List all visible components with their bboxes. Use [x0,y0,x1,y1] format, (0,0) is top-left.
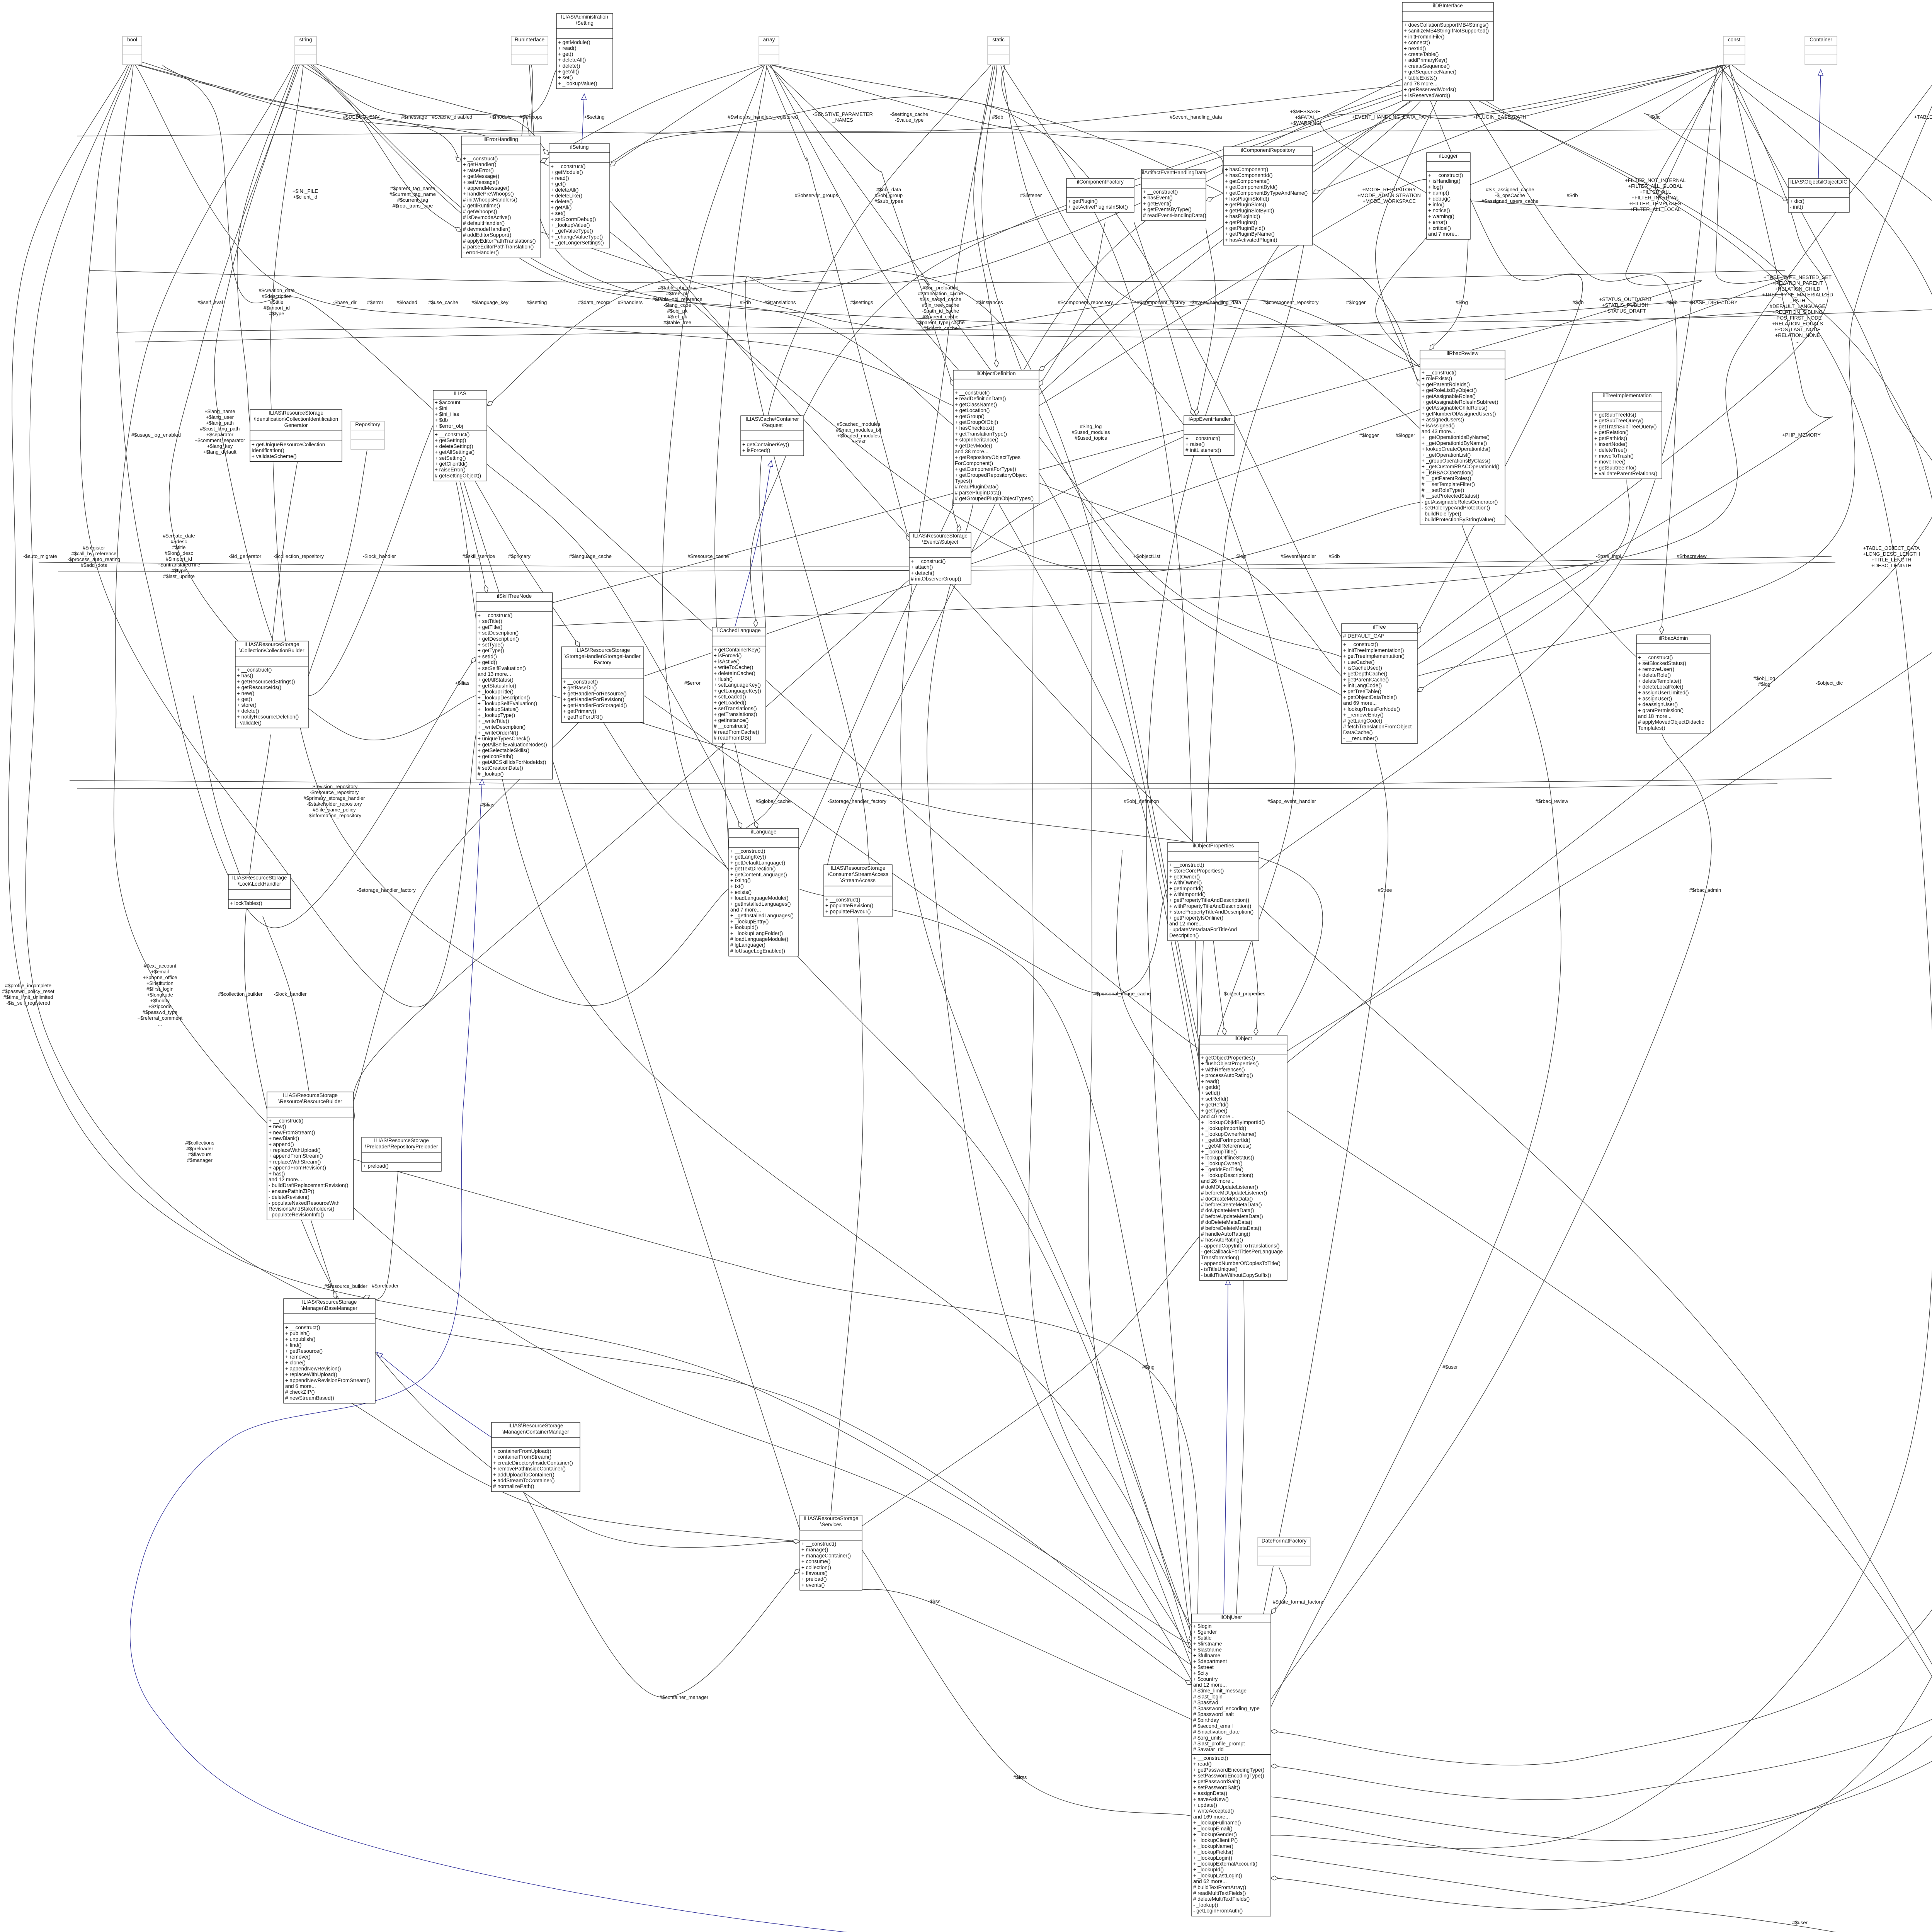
svg-text:Transformation(): Transformation() [1201,1255,1239,1260]
ilComponentFactory [1066,179,1134,212]
svg-text:+ getHandlerForRevision(): + getHandlerForRevision() [563,697,624,702]
edge containermanager to Services [522,1489,800,1697]
svg-text:+ getResourceIds(): + getResourceIds() [237,685,281,690]
svg-text:#$parent_cache: #$parent_cache [922,314,958,320]
svg-text:+ getPropertyTitleAndDescripti: + getPropertyTitleAndDescription() [1169,897,1249,903]
svg-text:# $birthday: # $birthday [1193,1717,1219,1723]
svg-text:+ processAutoRating(): + processAutoRating() [1201,1073,1253,1078]
svg-text:ILIAS\Cache\Container: ILIAS\Cache\Container [745,416,799,422]
svg-text:+ getInstalledLanguages(): + getInstalledLanguages() [730,901,791,907]
svg-text:#$assigned_users_cache: #$assigned_users_cache [1481,198,1538,204]
svg-text:+ getPasswordSalt(): + getPasswordSalt() [1193,1779,1240,1784]
svg-text:#$import_id: #$import_id [166,556,192,562]
svg-text:# hasAutoRating(): # hasAutoRating() [1201,1237,1243,1243]
svg-text:#$lng: #$lng [1142,1364,1155,1370]
svg-text:#$global_cache: #$global_cache [755,798,791,804]
svg-text:# parsePluginData(): # parsePluginData() [955,490,1001,495]
svg-text:+ getLanguageKey(): + getLanguageKey() [714,688,761,694]
svg-text:#$in_tree_cache: #$in_tree_cache [922,302,959,308]
svg-text:+ remove(): + remove() [285,1354,311,1360]
edge ilObjectDIC extends Container [1818,70,1821,179]
Container [1805,36,1837,65]
edge cross2 [610,232,1420,573]
svg-text:+$loaded_modules: +$loaded_modules [837,433,880,439]
svg-text:+ setPasswordSalt(): + setPasswordSalt() [1193,1784,1240,1790]
svg-text:+ dic(): + dic() [1790,198,1804,204]
svg-text:string: string [299,37,312,43]
svg-text:ilComponentRepository: ilComponentRepository [1241,147,1295,153]
svg-text:and 26 more...: and 26 more... [1201,1178,1235,1184]
svg-text:+ getEventsByType(): + getEventsByType() [1143,207,1192,213]
svg-text:+$hobby: +$hobby [150,998,170,1003]
svg-text:#$ref_pk: #$ref_pk [668,314,687,320]
svg-text:and 40 more...: and 40 more... [1201,1114,1235,1119]
edge cross12 [1196,228,1216,416]
svg-text:+ roleExists(): + roleExists() [1422,376,1452,381]
svg-text:ilObjectDefinition: ilObjectDefinition [976,371,1015,376]
svg-text:+ withReferences(): + withReferences() [1201,1066,1245,1072]
svg-text:#$resource_builder: #$resource_builder [324,1283,367,1289]
svg-text:+$lang_name: +$lang_name [204,408,235,414]
svg-text:ilObjUser: ilObjUser [1221,1614,1242,1620]
svg-text:#$component_repository: #$component_repository [1263,299,1319,305]
svg-text:ilSkillTreeNode: ilSkillTreeNode [497,593,532,599]
edge string to ilObjUser left [114,65,1192,1685]
edge ilCron to ilObjUser user [1270,340,1932,1909]
svg-text:+ has(): + has() [237,673,253,679]
edge ILIAS diamond from top [162,65,433,410]
svg-text:# devmodeHandler(): # devmodeHandler() [463,226,510,232]
svg-text:+ detach(): + detach() [911,570,934,576]
svg-text:-$information_repository: -$information_repository [307,813,362,818]
svg-text:DateFormatFactory: DateFormatFactory [1262,1538,1307,1544]
edge const to ilObjUser PASSWD [1270,65,1932,1765]
svg-text:+ _lookupSelfEvaluation(): + _lookupSelfEvaluation() [478,701,537,706]
edge ilObject to ilObjUser gray [1236,1274,1244,1614]
BaseManager [284,1299,375,1403]
svg-text:- isTitleUnique(): - isTitleUnique() [1201,1266,1238,1272]
svg-text:#$preloader: #$preloader [186,1146,213,1151]
svg-text:+ __construct(): + __construct() [563,679,598,685]
svg-text:+ getLangKey(): + getLangKey() [730,854,766,860]
edge ilias long right [486,425,1932,1932]
svg-text:Identification(): Identification() [252,447,284,453]
svg-text:+ getGroupOfObj(): + getGroupOfObj() [955,419,998,425]
svg-text:and 43 more...: and 43 more... [1422,429,1455,434]
svg-text:+ unpublish(): + unpublish() [285,1336,315,1342]
svg-text:+ __construct(): + __construct() [730,848,765,854]
svg-text:Types(): Types() [955,478,972,484]
svg-text:_PATH: _PATH [1789,298,1805,303]
svg-text:+ getAllCSkillIdsForNodeIds(): + getAllCSkillIdsForNodeIds() [478,759,546,765]
svg-text:#$self_eval: #$self_eval [197,299,223,305]
svg-text:+ exists(): + exists() [730,889,752,895]
svg-text:# defaultHandler(): # defaultHandler() [463,220,505,226]
svg-text:+ dump(): + dump() [1428,190,1449,196]
svg-text:-$storage_handler_factory: -$storage_handler_factory [357,887,416,893]
svg-text:+ uniqueTypesCheck(): + uniqueTypesCheck() [478,736,530,742]
edge array to ilObjUser [663,65,1192,1634]
svg-text:+ appendFromRevision(): + appendFromRevision() [269,1165,326,1171]
svg-text:#$file_name_policy: #$file_name_policy [313,807,356,813]
svg-text:#$component_repository: #$component_repository [1058,299,1113,305]
svg-text:+ getAll(): + getAll() [558,69,579,75]
svg-text:+ getTreeImplementation(): + getTreeImplementation() [1343,653,1405,659]
svg-text:-$auto_migrate: -$auto_migrate [23,553,57,559]
svg-text:# doCreateMetaData(): # doCreateMetaData() [1201,1196,1253,1202]
svg-text:+ info(): + info() [1428,202,1444,207]
svg-text:+ getReservedWords(): + getReservedWords() [1404,87,1456,92]
svg-text:+ getRepositoryObjectTypes: + getRepositoryObjectTypes [955,454,1020,460]
svg-text:+$module: +$module [489,114,511,120]
svg-text:+ getPathIds(): + getPathIds() [1594,435,1627,441]
ilTreeImplementation [1593,392,1662,479]
svg-text:#$rbac_review: #$rbac_review [1536,798,1568,804]
svg-text:#$table_obj_reference: #$table_obj_reference [652,296,702,302]
svg-text:+ populateFlavour(): + populateFlavour() [825,908,871,914]
svg-text:#$creation_date: #$creation_date [259,287,294,293]
svg-text:+ new(): + new() [237,690,254,696]
svg-text:+TREE_TYPE_MATERIALIZED: +TREE_TYPE_MATERIALIZED [1762,292,1833,298]
svg-text:-$is_self_registered: -$is_self_registered [6,1000,50,1006]
svg-text:+PHP_MEMORY: +PHP_MEMORY [1782,432,1821,438]
edge cross4 [552,696,1323,1159]
svg-text:+ __construct(): + __construct() [1638,655,1673,660]
svg-text:#$instances: #$instances [976,299,1003,305]
svg-text:ilErrorHandling: ilErrorHandling [483,136,518,142]
svg-text:and 78 more...: and 78 more... [1404,81,1437,87]
edge array to ilErrorHandling [540,65,763,162]
svg-text:+ $db: + $db [435,417,448,423]
svg-text:+ getRefId(): + getRefId() [1201,1102,1229,1108]
edge db to ilTree db [1417,99,1583,634]
svg-text:+ createTable(): + createTable() [1404,51,1439,57]
svg-text:#$sub_types: #$sub_types [874,198,903,204]
svg-text:+ hasPluginId(): + hasPluginId() [1225,214,1260,219]
svg-text:#$flavours: #$flavours [188,1151,211,1157]
svg-text:+ getDescription(): + getDescription() [478,636,519,642]
svg-text:ILIAS\Object\ilObjectDIC: ILIAS\Object\ilObjectDIC [1790,179,1847,185]
svg-text:+ getModule(): + getModule() [558,39,590,45]
svg-text:+ hasComponent(): + hasComponent() [1225,167,1268,172]
svg-text:#$last_update: #$last_update [163,573,195,579]
svg-text:+ replaceWithStream(): + replaceWithStream() [269,1159,321,1165]
svg-text:#$logger: #$logger [1396,432,1415,438]
svg-text:- buildRoleType(): - buildRoleType() [1422,511,1461,517]
svg-text:+ $account: + $account [435,400,461,405]
svg-text:#$db: #$db [1567,192,1578,198]
svg-text:- init(): - init() [1790,204,1803,210]
edge db to ilObjUser right [1270,99,1932,1849]
svg-text:+RELATION_SIBLING: +RELATION_SIBLING [1772,309,1823,315]
svg-text:+ getPrimary(): + getPrimary() [563,708,596,714]
svg-text:+ _getAllReferences(): + _getAllReferences() [1201,1143,1252,1149]
ilAppEventHandler [1184,416,1234,456]
edge string to ilErrorHandling [301,65,461,232]
svg-text:\Manager\BaseManager: \Manager\BaseManager [301,1305,357,1311]
svg-text:# readEventHandlingData(): # readEventHandlingData() [1143,213,1206,218]
svg-text:+ manage(): + manage() [801,1547,828,1553]
svg-text:+ _getValueType(): + _getValueType() [551,228,593,234]
edge const to ilTree treetypes [1417,65,1828,649]
svg-text:# doDeleteMetaData(): # doDeleteMetaData() [1201,1219,1252,1225]
edge string to ilSetting2 [307,65,549,155]
svg-text:# addEditorSupport(): # addEditorSupport() [463,232,511,238]
edge ILIAS to ilObjUser [456,481,1192,1627]
svg-text:#$db: #$db [992,114,1003,120]
svg-text:-$lang_code: -$lang_code [663,302,691,308]
edge personal image cache [1116,850,1199,1121]
svg-text:- getLoginFromAuth(): - getLoginFromAuth() [1193,1908,1243,1914]
svg-text:#$db: #$db [1329,553,1340,559]
Repository [351,421,384,449]
edge db to ILIAS [487,77,1406,406]
svg-text:+ $gender: + $gender [1193,1629,1217,1635]
svg-text:+ setMessage(): + setMessage() [463,179,499,185]
svg-text:+ getActivePluginsInSlot(): + getActivePluginsInSlot() [1068,204,1128,210]
edge ILIAS to StorageFactory [475,481,580,647]
svg-text:+ $country: + $country [1193,1676,1218,1682]
svg-text:+ log(): + log() [1428,184,1443,190]
svg-text:+ __construct(): + __construct() [911,558,946,564]
svg-text:+ getSubTreeIds(): + getSubTreeIds() [1594,412,1636,418]
svg-text:# $passwd: # $passwd [1193,1700,1218,1706]
svg-text:#$db: #$db [1667,299,1678,305]
svg-text:ILIAS\ResourceStorage: ILIAS\ResourceStorage [269,410,323,416]
svg-text:+ getAllSelfEvaluationNodes(): + getAllSelfEvaluationNodes() [478,742,547,747]
svg-text:+ getContainerKey(): + getContainerKey() [714,647,760,653]
svg-text:+ get(): + get() [551,181,566,187]
svg-text:+ delete(): + delete() [558,63,580,69]
edge basemanager to Services [348,1401,800,1542]
svg-text:+ doesCollationSupportMB4Strin: + doesCollationSupportMB4Strings() [1404,22,1489,28]
ilDBInterface [1402,2,1493,101]
svg-text:#$obj_data: #$obj_data [876,187,901,192]
svg-text:+ txtlng(): + txtlng() [730,878,751,883]
svg-text:+ grantPermission(): + grantPermission() [1638,707,1684,713]
svg-text:+ notifyResourceDeletion(): + notifyResourceDeletion() [237,714,299,720]
svg-text:# getWhoops(): # getWhoops() [463,209,497,214]
svg-text:+ _writeOrderNr(): + _writeOrderNr() [478,730,518,736]
edge array to IRbacReview [772,65,1420,386]
svg-text:\StorageHandler\StorageHandler: \StorageHandler\StorageHandler [565,653,641,659]
svg-text:+ withPropertyTitleAndDescript: + withPropertyTitleAndDescription() [1169,903,1251,909]
svg-text:+ _lookupLangFolder(): + _lookupLangFolder() [730,930,783,936]
svg-text:- getCallbackForTitlesPerLangu: - getCallbackForTitlesPerLanguage [1201,1249,1283,1255]
svg-text:- populateNakedResourceWith: - populateNakedResourceWith [269,1200,340,1206]
svg-text:# readFromCache(): # readFromCache() [714,729,759,735]
svg-text:ILIAS\Administration: ILIAS\Administration [561,14,608,20]
svg-text:+ $city: + $city [1193,1670,1209,1676]
svg-text:-$collection_repository: -$collection_repository [274,553,324,559]
edge services to ilObjUser [862,1549,1192,1816]
svg-text:#$ilias: #$ilias [480,802,495,808]
svg-text:+ initFromIniFile(): + initFromIniFile() [1404,34,1444,39]
svg-text:+ getPasswordEncodingType(): + getPasswordEncodingType() [1193,1767,1264,1773]
svg-text:+ $ini_ilias: + $ini_ilias [435,411,459,417]
svg-text:#$DEBUG_ENV: #$DEBUG_ENV [343,114,380,120]
svg-text:+ assignedUsers(): + assignedUsers() [1422,417,1464,423]
edge array to ilComponentRepository [771,65,1223,174]
svg-text:ILIAS\ResourceStorage: ILIAS\ResourceStorage [302,1299,357,1305]
svg-text:+ getObjectProperties(): + getObjectProperties() [1201,1055,1255,1061]
edge array to ilTree cache [770,65,1342,657]
svg-text:+ $street: + $street [1193,1664,1214,1670]
svg-text:-$base_dir: -$base_dir [333,299,357,305]
svg-text:const: const [1728,37,1741,43]
svg-text:+ saveAsNew(): + saveAsNew() [1193,1796,1229,1802]
svg-text:+ getType(): + getType() [478,648,504,653]
svg-text:bool: bool [127,37,137,43]
svg-text:+ isAssigned(): + isAssigned() [1422,423,1455,429]
svg-text:+ preload(): + preload() [363,1163,389,1169]
svg-text:and 18 more...: and 18 more... [1638,713,1672,719]
edge bool to ilObjUser far left [9,65,1192,1646]
svg-text:+ isForced(): + isForced() [714,653,742,658]
svg-text:+ setTranslations(): + setTranslations() [714,706,757,711]
svg-text:# normalizePath(): # normalizePath() [493,1483,534,1489]
svg-text:+ __construct(): + __construct() [1185,435,1220,441]
svg-text:+ getAllSettings(): + getAllSettings() [435,449,474,455]
svg-text:+ critical(): + critical() [1428,225,1451,231]
svg-text:# loUsageLogEnabled(): # loUsageLogEnabled() [730,948,785,954]
svg-text:+RELATION_CHILD: +RELATION_CHILD [1775,286,1820,292]
svg-text:# initListeners(): # initListeners() [1185,447,1221,453]
edge cross14 [1039,222,1105,386]
svg-text:+$FATAL: +$FATAL [1295,114,1316,120]
svg-text:+ collection(): + collection() [801,1565,831,1570]
svg-text:#$log: #$log [1758,681,1770,687]
svg-text:+ validateScheme(): + validateScheme() [252,453,297,459]
svg-text:- _lookup(): - _lookup() [1193,1902,1218,1908]
svg-text:ilCachedLanguage: ilCachedLanguage [717,628,761,633]
svg-text:+ append(): + append() [269,1141,294,1147]
svg-text:+ getResource(): + getResource() [285,1348,323,1354]
svg-text:+ _getOperationIdByName(): + _getOperationIdByName() [1422,440,1487,446]
ilSetting [549,144,610,248]
svg-text:ilObject: ilObject [1235,1036,1252,1041]
svg-text:#$cache_disabled: #$cache_disabled [432,114,473,120]
svg-text:+DESC_LENGTH: +DESC_LENGTH [1871,563,1912,568]
svg-text:+ delete(): + delete() [237,708,259,714]
svg-text:and 62 more...: and 62 more... [1193,1879,1227,1884]
edge ilCachedLanguage extends Request [734,461,771,630]
ILIAS ResourceStorage Lock LockHandler [228,874,291,908]
svg-text:+ $firstname: + $firstname [1193,1641,1222,1647]
svg-text:+ __construct(): + __construct() [435,432,469,437]
svg-text:+ getInstance(): + getInstance() [714,717,748,723]
svg-text:# $last_profile_prompt: # $last_profile_prompt [1193,1741,1245,1747]
svg-text:#$collection_builder: #$collection_builder [218,991,263,997]
edge db to ilBasicSkill [1476,99,1932,1932]
svg-text:+ withImportId(): + withImportId() [1169,891,1206,897]
edge cross7 [644,696,1168,995]
edge int to ilObjUser2 [1270,65,1932,1861]
svg-text:+ _writeTitle(): + _writeTitle() [478,718,509,724]
svg-text:# loadLanguageModule(): # loadLanguageModule() [730,936,788,942]
edge db to ilLanguage [799,97,1410,850]
svg-text:#$current_tag_name: #$current_tag_name [389,191,436,197]
svg-text:+ getId(): + getId() [478,660,497,665]
svg-text:and 12 more...: and 12 more... [1193,1682,1227,1688]
svg-text:# $inactivation_date: # $inactivation_date [1193,1729,1240,1735]
edge bool to ilErrorHandling [137,65,461,162]
svg-text:+ deleteLike(): + deleteLike() [551,193,582,199]
svg-text:+ createSequence(): + createSequence() [1404,63,1450,69]
edge array to ilObjectDefinition [768,65,953,386]
svg-text:+ $fullname: + $fullname [1193,1653,1220,1658]
svg-text:ILIAS\ResourceStorage: ILIAS\ResourceStorage [831,865,886,871]
edge bus4 [70,779,1832,784]
svg-text:#$date_format_factory: #$date_format_factory [1273,1599,1323,1605]
svg-text:ilLanguage: ilLanguage [751,829,776,835]
edge vert mid2 [1088,500,1194,1673]
ILIAS Object ilObjectDIC [1788,179,1849,212]
svg-text:# setCreationDate(): # setCreationDate() [478,765,523,771]
edge string to AdmSetting [309,62,556,117]
svg-text:+ _getLongerSettings(): + _getLongerSettings() [551,240,604,246]
svg-text:+ _lookupGender(): + _lookupGender() [1193,1832,1237,1837]
svg-text:+TABLE_OBJECT_DATA: +TABLE_OBJECT_DATA [1863,545,1920,551]
svg-text:+$setting: +$setting [584,114,604,120]
svg-text:+ lookupId(): + lookupId() [730,925,758,930]
svg-text:+ _getOperationList(): + _getOperationList() [1422,452,1471,458]
ILIAS Administration Setting [556,14,613,89]
svg-text:# doMDUpdateListener(): # doMDUpdateListener() [1201,1184,1258,1190]
svg-text:\Identification\CollectionIden: \Identification\CollectionIdentification [254,416,338,422]
svg-text:#$obj_group: #$obj_group [875,192,903,198]
edge cachedlang to ilLanguage [734,741,757,828]
ilSkillTreeNode [476,593,553,779]
edge preloader to BaseManager [363,1172,398,1300]
svg-text:+TREE_TYPE_NESTED_SET: +TREE_TYPE_NESTED_SET [1764,274,1832,280]
edge storagefactory to ResourceBuilder [354,721,580,1101]
svg-text:+ getParentRoleIds(): + getParentRoleIds() [1422,381,1470,387]
svg-text:-$_opsCache: -$_opsCache [1495,192,1525,198]
svg-text:+ __construct(): + __construct() [237,667,272,673]
svg-text:+$INI_FILE: +$INI_FILE [293,188,318,194]
svg-text:and 69 more...: and 69 more... [1343,700,1377,706]
svg-text:+$zipcode: +$zipcode [148,1003,172,1009]
svg-text:and 169 more...: and 169 more... [1193,1814,1230,1820]
svg-text:+ read(): + read() [1201,1078,1219,1084]
svg-text:$log: $log [1236,553,1246,559]
svg-text:# _lookup(): # _lookup() [478,771,504,777]
svg-text:#$language_key: #$language_key [471,299,509,305]
svg-text:ilDBInterface: ilDBInterface [1433,3,1463,9]
svg-text:# __setRoleType(): # __setRoleType() [1422,487,1464,493]
svg-text:+ preload(): + preload() [801,1576,827,1582]
edge cross11 [1376,237,1427,367]
svg-text:Templates(): Templates() [1638,725,1665,731]
svg-text:+ moveToTrash(): + moveToTrash() [1594,453,1634,459]
svg-text:+ validateParentRelations(): + validateParentRelations() [1594,471,1657,476]
svg-text:+ getRelation(): + getRelation() [1594,430,1629,435]
edge appevent to Subject [971,437,1184,553]
svg-text:Factory: Factory [594,660,611,665]
svg-text:...: ... [158,1021,162,1027]
edge setting long right [610,201,1932,1932]
svg-text:#$current_tag: #$current_tag [397,197,428,203]
edge cross5 [354,1159,1199,1662]
svg-text:+ getImportId(): + getImportId() [1169,886,1204,891]
edge bus3b [58,562,1835,572]
svg-text:+ flush(): + flush() [714,676,733,682]
svg-text:+ getPlugins(): + getPlugins() [1225,219,1257,225]
svg-text:# lgLanguage(): # lgLanguage() [730,942,765,948]
svg-text:#$ext_account: #$ext_account [144,963,177,969]
svg-text:+MODE_ADMINISTRATION: +MODE_ADMINISTRATION [1357,192,1421,198]
